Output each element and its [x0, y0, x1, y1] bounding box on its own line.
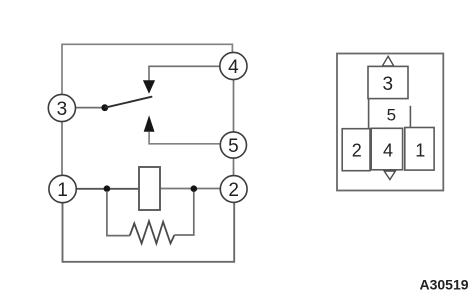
resistor zigzag	[130, 221, 175, 243]
connector center slot left wall	[368, 99, 370, 129]
connector keying triangle bottom	[384, 171, 395, 180]
wire resistor to right junction	[174, 192, 193, 236]
wire normally-closed contact feed from terminal 4	[149, 66, 220, 80]
wire terminal 4 to terminal 5	[233, 80, 235, 132]
wire left junction down to resistor	[107, 191, 130, 236]
svg-text:4: 4	[383, 141, 393, 161]
wire normally-open contact to terminal 5	[149, 132, 221, 144]
wire terminal 3 to terminal 1	[61, 122, 63, 176]
svg-text:5: 5	[228, 136, 239, 157]
wire coil right to terminal 2	[160, 188, 220, 190]
connector cavity 1	[405, 128, 434, 171]
wire terminal 1 to coil left	[76, 188, 139, 190]
connector cavity 2	[342, 129, 370, 171]
connector center slot right wall	[409, 106, 411, 128]
svg-text:3: 3	[57, 99, 68, 120]
junction dot left of coil	[104, 185, 111, 192]
svg-text:1: 1	[415, 141, 425, 161]
connector outline	[337, 54, 443, 191]
terminal circle 3	[48, 94, 75, 121]
relay coil	[139, 167, 160, 210]
contact arrow down (NC contact)	[143, 80, 155, 94]
terminal circle 2	[220, 176, 247, 203]
terminal circle 5	[220, 132, 246, 158]
wire from terminal 3 to switch pivot	[76, 107, 102, 109]
svg-text:5: 5	[387, 105, 396, 124]
svg-text:2: 2	[352, 141, 362, 161]
switch pivot junction dot	[101, 104, 108, 111]
svg-text:1: 1	[57, 180, 68, 201]
svg-text:3: 3	[383, 74, 394, 95]
switch blade	[105, 97, 153, 108]
connector cavity 4	[371, 128, 402, 170]
wire terminal 5 to terminal 2	[233, 158, 235, 176]
contact arrow up (NO contact)	[144, 115, 155, 132]
svg-text:A30519: A30519	[420, 277, 469, 293]
terminal circle 1	[49, 175, 76, 202]
wire top loop from terminal 3 to terminal 4	[62, 44, 232, 94]
svg-text:4: 4	[228, 57, 239, 78]
junction dot right of coil	[191, 185, 198, 192]
svg-text:2: 2	[228, 180, 239, 201]
wire bottom loop terminal 1 to terminal 2	[63, 203, 235, 262]
terminal circle 4	[220, 52, 247, 79]
connector cavity 3	[368, 66, 408, 98]
connector keying triangle top	[382, 56, 393, 66]
